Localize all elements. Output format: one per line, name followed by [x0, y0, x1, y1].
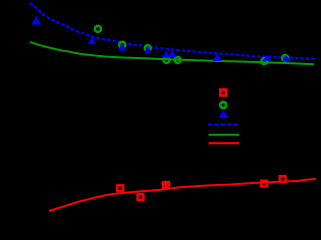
blue triangle marker T3b: [144, 46, 152, 52]
legend green line: [209, 134, 240, 136]
red square marker S2: [138, 194, 144, 200]
green solid curve (middle model curve): [30, 42, 314, 64]
green circle marker C5: [175, 57, 181, 63]
red square marker S3: [163, 182, 169, 188]
blue triangle marker T5: [168, 50, 177, 57]
green circle marker C3: [145, 45, 151, 51]
blue triangle marker T8: [282, 56, 291, 62]
red square marker S3 error bar: [165, 182, 167, 190]
blue dashed curve (top model curve): [30, 3, 315, 59]
red square marker S1: [117, 185, 123, 191]
legend red line: [209, 142, 240, 144]
blue triangle marker T7: [263, 55, 272, 61]
green circle marker C1: [95, 26, 101, 32]
legend blue dashed line: [208, 123, 239, 126]
red square marker S3 horizontal error bar: [162, 183, 171, 185]
red square marker S5: [280, 176, 286, 182]
legend red square marker: [220, 90, 226, 96]
blue triangle marker T2: [88, 37, 96, 44]
blue triangle marker T6: [213, 53, 222, 61]
green circle marker C6: [261, 58, 267, 64]
blue triangle marker T1: [32, 15, 41, 24]
red solid curve (bottom model curve): [49, 179, 316, 211]
green circle marker C4: [163, 57, 169, 63]
blue triangle marker T3: [118, 43, 126, 51]
legend green circle marker: [220, 102, 226, 108]
green circle marker C7: [282, 55, 288, 61]
blue triangle marker T4: [162, 51, 171, 58]
red square marker S4: [261, 181, 267, 187]
green circle marker C2: [119, 42, 125, 48]
legend blue triangle marker: [218, 110, 228, 118]
